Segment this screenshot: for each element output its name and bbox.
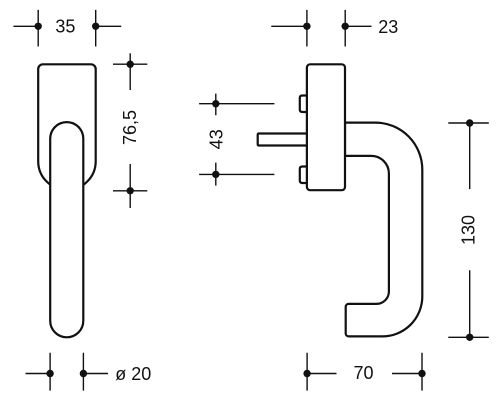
dim 35: right dot: [92, 23, 99, 30]
dim 35: left dot: [35, 23, 42, 30]
dim 130: bottom dot: [466, 334, 473, 341]
dim 43: top cross: [199, 94, 274, 116]
dim 76,5: top dot: [127, 60, 134, 67]
dim ø20: right dot: [80, 370, 87, 377]
svg-text:23: 23: [378, 17, 398, 37]
dim ø20: right cross: [83, 353, 108, 391]
dim 130: bottom T cross: [448, 270, 489, 337]
dim 35: right cross: [96, 10, 122, 47]
side view: spindle shaft: [258, 134, 307, 146]
front view: rose plate outline: [38, 64, 95, 190]
side view: handle neck, grip and bottom hook: [345, 123, 422, 337]
dim 76,5: top cross: [113, 53, 147, 90]
dim 43: top dot: [212, 100, 219, 107]
dim ø20: left cross: [26, 353, 51, 391]
dim ø20: left dot: [46, 370, 53, 377]
dim 76,5: bottom dot: [127, 187, 134, 194]
dim 70: right cross: [392, 353, 422, 391]
dim 130: top dot: [466, 119, 473, 126]
dim 70: right dot: [418, 370, 425, 377]
svg-text:35: 35: [55, 17, 75, 37]
svg-text:70: 70: [353, 363, 373, 383]
side view: plate outline: [307, 64, 345, 190]
dim 70: left dot: [303, 370, 310, 377]
dim 23: left dot: [303, 23, 310, 30]
dim 70: left cross: [307, 353, 336, 391]
dim 130: top T cross: [448, 123, 489, 189]
dim 35: left cross: [13, 10, 38, 47]
dim 43: bottom cross: [199, 163, 274, 186]
side view: lower screw lug: [300, 167, 307, 184]
side view: upper screw lug: [300, 96, 307, 113]
front view: handle grip (stadium shape): [50, 122, 83, 337]
dim 43: bottom dot: [212, 171, 219, 178]
svg-text:43: 43: [207, 129, 227, 149]
dim 23: right cross: [345, 10, 371, 47]
svg-text:ø 20: ø 20: [115, 364, 151, 384]
dim 23: right dot: [342, 23, 349, 30]
dim 76,5: bottom cross: [113, 164, 147, 208]
svg-text:76,5: 76,5: [120, 110, 140, 145]
svg-text:130: 130: [459, 215, 479, 245]
dim 23: left cross: [271, 10, 307, 47]
